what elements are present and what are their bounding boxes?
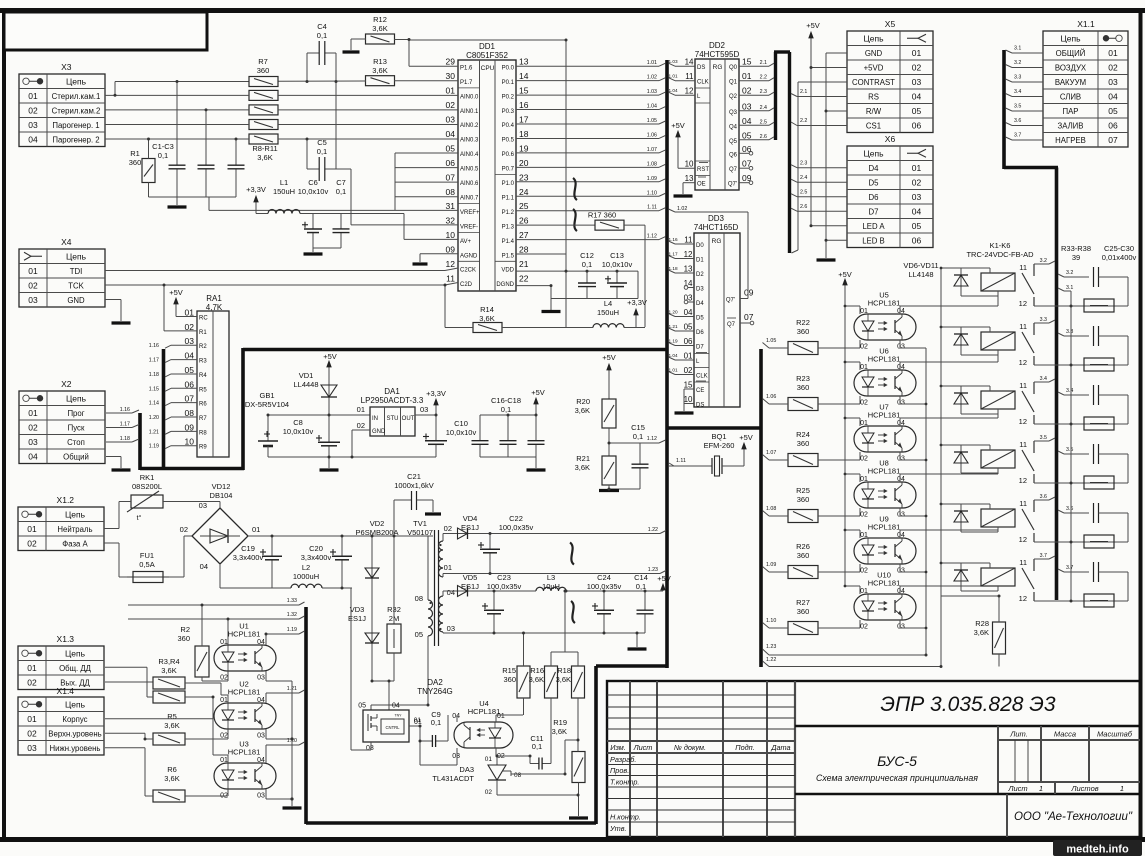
svg-text:R1: R1: [130, 149, 140, 158]
optocoupler U6 HCPL181: [854, 347, 916, 407]
svg-text:15: 15: [519, 86, 529, 96]
wire VDD: [516, 270, 638, 272]
resistor R25 360: [788, 486, 818, 523]
wire contact 11 to bus 3.2: [1034, 263, 1049, 265]
svg-text:0,1: 0,1: [633, 432, 643, 441]
svg-text:14: 14: [684, 279, 693, 288]
svg-text:01: 01: [912, 163, 922, 173]
svg-text:VD2: VD2: [370, 519, 385, 528]
wires X2 to bus: [106, 412, 132, 414]
svg-text:01: 01: [860, 532, 868, 539]
wire row P1.7 input chain: [115, 81, 249, 83]
svg-text:D7: D7: [696, 345, 704, 351]
svg-text:HCPL181: HCPL181: [868, 355, 901, 364]
svg-text:04: 04: [452, 713, 460, 720]
svg-text:LL4448: LL4448: [293, 380, 318, 389]
svg-text:01: 01: [220, 697, 228, 704]
svg-text:3,6K: 3,6K: [257, 153, 272, 162]
svg-text:P0.5: P0.5: [502, 138, 515, 144]
svg-text:3,3x400v: 3,3x400v: [301, 553, 332, 562]
svg-text:L4: L4: [604, 299, 612, 308]
optocoupler U3 HCPL181: [214, 740, 276, 800]
inductor L4 150uH: [566, 299, 645, 328]
flyback diode VD9 LL4148: [954, 445, 968, 473]
svg-text:ОБЩИЙ: ОБЩИЙ: [1056, 49, 1086, 58]
svg-text:1.06: 1.06: [647, 132, 657, 138]
svg-text:CE: CE: [696, 388, 704, 394]
svg-text:AIN0.7: AIN0.7: [460, 195, 479, 201]
bus vertical RA1 signals: [162, 349, 166, 468]
wire RK1 to bridge: [163, 501, 220, 503]
capacitor C15 0,1: [609, 423, 649, 489]
svg-text:X4: X4: [61, 237, 72, 247]
wire contact 11 to bus 3.6: [1034, 499, 1049, 501]
svg-text:03: 03: [897, 344, 905, 351]
svg-text:+5V: +5V: [671, 121, 685, 130]
wire RA1 pin 03 from bus: [165, 345, 171, 348]
svg-text:03: 03: [27, 743, 37, 753]
svg-text:1.22: 1.22: [766, 657, 776, 663]
svg-text:03: 03: [897, 512, 905, 519]
svg-text:1.14: 1.14: [149, 401, 159, 407]
wires DD3 inputs from bus: [669, 241, 676, 244]
svg-text:R2: R2: [199, 344, 207, 350]
svg-text:+5V: +5V: [169, 288, 183, 297]
svg-text:06: 06: [912, 120, 922, 130]
svg-text:05: 05: [415, 630, 423, 639]
svg-text:DD1: DD1: [479, 42, 496, 51]
svg-text:03: 03: [447, 624, 455, 633]
wires relay K5 coil: [941, 503, 990, 505]
svg-text:D0: D0: [696, 243, 704, 249]
svg-text:R21: R21: [576, 454, 590, 463]
svg-text:HCPL181: HCPL181: [468, 707, 501, 716]
svg-text:3,6K: 3,6K: [372, 24, 387, 33]
svg-text:GND: GND: [67, 296, 85, 305]
svg-text:DA2: DA2: [427, 678, 443, 687]
wire R3 to U2 anode: [185, 682, 221, 684]
svg-text:01: 01: [220, 757, 228, 764]
svg-text:03: 03: [897, 456, 905, 463]
svg-text:Цепь: Цепь: [863, 148, 884, 158]
svg-text:R28: R28: [975, 619, 989, 628]
svg-text:1.01: 1.01: [647, 60, 657, 66]
svg-text:04: 04: [257, 697, 265, 704]
svg-text:1.09: 1.09: [647, 176, 657, 182]
capacitor group C16-C18 0,1: [472, 396, 545, 457]
svg-text:C8051F352: C8051F352: [466, 51, 508, 60]
svg-text:3,6K: 3,6K: [575, 463, 590, 472]
power +5V C16-C18: [531, 388, 545, 415]
svg-text:1.15: 1.15: [149, 386, 159, 392]
controller DA2 TNY264G: [358, 678, 453, 752]
wire X2 Общий to ground: [106, 456, 121, 458]
svg-text:+5V: +5V: [531, 388, 545, 397]
resistor group R8-R11 3,6K: [249, 90, 278, 162]
svg-text:2.3: 2.3: [800, 161, 807, 167]
relay contact K5: [1019, 499, 1034, 544]
svg-text:11: 11: [446, 273, 455, 283]
wire contact 11 to bus 3.5: [1034, 440, 1049, 442]
wire X3 pin 03 to AIN0.2: [105, 124, 249, 126]
snubber capacitor C25: [1094, 267, 1129, 306]
svg-text:3.7: 3.7: [1066, 565, 1073, 571]
svg-text:3.4: 3.4: [1014, 89, 1021, 95]
power +5V R20: [602, 353, 616, 377]
svg-text:Q7': Q7': [728, 182, 737, 188]
snubber capacitor C27: [1094, 385, 1129, 424]
wire X4 TCK to C2D: [105, 284, 445, 286]
svg-text:02: 02: [860, 344, 868, 351]
svg-text:Нижн.уровень: Нижн.уровень: [50, 744, 101, 753]
svg-text:360: 360: [797, 607, 810, 616]
svg-text:X1.1: X1.1: [1077, 19, 1095, 29]
svg-text:Изм.: Изм.: [610, 743, 626, 752]
wire DGND: [516, 285, 551, 287]
wires U10 pins: [845, 585, 860, 587]
snubber resistor R38: [1084, 594, 1114, 607]
svg-text:R7: R7: [199, 416, 207, 422]
svg-text:1.12: 1.12: [647, 234, 657, 240]
svg-text:0,1: 0,1: [158, 151, 168, 160]
relay coil K4: [981, 450, 1015, 468]
resistor R18 3,6K: [556, 652, 585, 740]
svg-text:12: 12: [1019, 594, 1027, 603]
svg-text:02: 02: [357, 421, 365, 430]
svg-text:3.4: 3.4: [1066, 388, 1073, 394]
svg-text:P0.3: P0.3: [502, 109, 515, 115]
svg-text:01: 01: [446, 86, 456, 96]
svg-text:02: 02: [860, 400, 868, 407]
svg-text:01: 01: [912, 48, 922, 58]
svg-text:AIN0.4: AIN0.4: [460, 152, 479, 158]
svg-text:DX-5R5V104: DX-5R5V104: [245, 400, 289, 409]
svg-text:04: 04: [897, 420, 905, 427]
svg-text:R6: R6: [199, 402, 207, 408]
wire bus to R27: [763, 623, 770, 629]
svg-text:2.4: 2.4: [800, 175, 807, 181]
svg-text:1.04: 1.04: [669, 353, 679, 358]
capacitor C14 0,1: [634, 573, 653, 633]
rail battery return: [268, 456, 436, 458]
svg-text:R/W: R/W: [866, 107, 882, 116]
svg-text:1.21: 1.21: [149, 429, 159, 435]
wire contact 12 common: [1034, 423, 1128, 425]
resistor R28 3,6K: [941, 596, 1006, 667]
svg-text:3.7: 3.7: [1014, 133, 1021, 139]
relay coil K2: [981, 332, 1015, 350]
svg-text:25: 25: [519, 201, 529, 211]
relay coil K3: [981, 391, 1015, 409]
svg-text:3.5: 3.5: [1066, 447, 1073, 453]
svg-text:HCPL181: HCPL181: [868, 299, 901, 308]
svg-text:TDI: TDI: [70, 267, 83, 276]
svg-text:1.12: 1.12: [647, 436, 657, 442]
wire R6 to U3 cathode: [185, 795, 228, 797]
optocoupler U7 HCPL181: [854, 403, 916, 463]
svg-text:+5V: +5V: [657, 574, 671, 583]
wires relay K3 coil: [941, 385, 990, 387]
svg-text:2.2: 2.2: [800, 118, 807, 124]
svg-text:03: 03: [28, 437, 38, 447]
svg-text:03: 03: [912, 192, 922, 202]
title block right part: [795, 726, 1140, 837]
svg-text:Q7': Q7': [726, 298, 735, 304]
svg-text:23: 23: [519, 172, 529, 182]
svg-text:27: 27: [519, 230, 529, 240]
svg-text:0,1: 0,1: [317, 31, 327, 40]
svg-text:VD5: VD5: [463, 573, 478, 582]
svg-text:ВАКУУМ: ВАКУУМ: [1055, 78, 1086, 87]
wire DD1 P0.1 to bus net 1.02: [516, 80, 659, 82]
wire X1.1 net 3.6: [1006, 123, 1013, 126]
wire R5 to U2 cathode: [185, 738, 228, 740]
svg-text:CNTRL: CNTRL: [386, 725, 401, 730]
svg-text:02: 02: [912, 177, 922, 187]
svg-text:02: 02: [860, 456, 868, 463]
svg-text:0,1: 0,1: [582, 260, 592, 269]
svg-text:02: 02: [220, 733, 228, 740]
svg-text:БУС-5: БУС-5: [877, 753, 917, 769]
wires U1: [227, 619, 229, 645]
svg-text:14: 14: [685, 58, 694, 67]
svg-text:3,6K: 3,6K: [164, 774, 179, 783]
svg-text:ПАР: ПАР: [1062, 107, 1078, 116]
wire R16 R18 tops: [551, 651, 578, 653]
resistor R4 3,6K: [153, 691, 185, 703]
svg-text:K1-K6: K1-K6: [990, 241, 1011, 250]
wire X1.1 net 3.7: [1006, 137, 1013, 140]
svg-text:08S200L: 08S200L: [132, 482, 162, 491]
svg-text:1.33: 1.33: [287, 598, 297, 604]
svg-text:04: 04: [28, 134, 38, 144]
wire bus to R25: [763, 511, 770, 517]
svg-text:ЭПР 3.035.828 Э3: ЭПР 3.035.828 Э3: [880, 693, 1055, 716]
optocoupler U10 HCPL181: [854, 571, 916, 631]
wire TCK junction to RA1 R1: [163, 285, 165, 331]
connector X1.2: [18, 495, 104, 551]
svg-text:02: 02: [446, 100, 456, 110]
svg-text:3.6: 3.6: [1066, 506, 1073, 512]
svg-text:3.2: 3.2: [1066, 270, 1073, 276]
connector X6: [847, 134, 933, 248]
svg-text:R27: R27: [796, 598, 810, 607]
svg-text:01: 01: [1108, 48, 1118, 58]
svg-text:0,5A: 0,5A: [139, 560, 154, 569]
wire X4 GND: [105, 299, 121, 301]
resistor R22 360: [788, 318, 818, 355]
svg-text:10: 10: [685, 160, 694, 169]
svg-text:01: 01: [27, 524, 37, 534]
svg-text:RS: RS: [868, 92, 879, 101]
flyback diode VD11 LL4148: [954, 563, 968, 591]
svg-text:FU1: FU1: [140, 551, 154, 560]
ground X5 X6: [817, 258, 836, 261]
svg-text:06: 06: [912, 235, 922, 245]
wire R4 junction: [185, 696, 213, 698]
svg-text:R19: R19: [553, 718, 567, 727]
svg-text:X6: X6: [885, 134, 896, 144]
wire X1.2 Нейтраль to RK1: [104, 528, 119, 530]
wire DD1 P0.7 to bus net 1.08: [516, 166, 659, 168]
svg-text:11: 11: [685, 72, 694, 81]
svg-text:+3,3V: +3,3V: [426, 389, 446, 398]
wire top loop P1.6 P1.5: [409, 39, 566, 41]
svg-text:05: 05: [446, 143, 456, 153]
svg-text:P1.0: P1.0: [502, 181, 515, 187]
svg-text:D3: D3: [696, 287, 704, 293]
svg-text:02: 02: [180, 525, 188, 534]
svg-text:22: 22: [519, 273, 529, 283]
shift register DD3 74HCT165D: [684, 214, 754, 409]
wire DC positive rail: [248, 535, 433, 537]
svg-text:Цепь: Цепь: [66, 76, 87, 86]
svg-text:02: 02: [28, 422, 38, 432]
svg-text:R17 360: R17 360: [588, 211, 616, 220]
svg-text:04: 04: [912, 206, 922, 216]
svg-text:+5V: +5V: [323, 352, 337, 361]
svg-text:C14: C14: [634, 573, 648, 582]
svg-text:HCPL181: HCPL181: [868, 579, 901, 588]
resonator BQ1 EFM-260: [669, 432, 744, 476]
drawing frame bottom border: [0, 837, 1145, 842]
ground R19: [569, 816, 588, 819]
svg-text:1000uH: 1000uH: [293, 572, 319, 581]
battery GB1 DX-5R5V104: [245, 391, 289, 457]
svg-text:GND: GND: [865, 49, 883, 58]
svg-text:0,01x400v: 0,01x400v: [1102, 253, 1137, 262]
ground R12: [343, 50, 360, 53]
svg-text:R33-R38: R33-R38: [1061, 244, 1091, 253]
svg-text:10,0x10v: 10,0x10v: [298, 187, 329, 196]
wire RA1 pin 08 from bus: [165, 417, 171, 420]
wire DD1 P1.4 to bus net 1.12: [516, 239, 659, 241]
svg-text:P1.7: P1.7: [460, 80, 473, 86]
svg-text:01: 01: [860, 588, 868, 595]
svg-text:11: 11: [1019, 381, 1027, 390]
inductor L1 150uH: [256, 178, 355, 214]
wire X1.1 net 3.5: [1006, 108, 1013, 111]
svg-text:03: 03: [257, 733, 265, 740]
svg-text:1.05: 1.05: [766, 338, 776, 344]
svg-text:04: 04: [28, 451, 38, 461]
svg-text:R2: R2: [180, 625, 190, 634]
svg-text:1.02: 1.02: [647, 75, 657, 81]
svg-text:1.21: 1.21: [669, 324, 679, 329]
svg-text:C2D: C2D: [460, 282, 473, 288]
svg-text:01: 01: [27, 663, 37, 673]
flyback diode VD6 LL4148: [954, 268, 968, 296]
svg-text:3,6K: 3,6K: [575, 406, 590, 415]
svg-text:EFM-260: EFM-260: [704, 441, 735, 450]
svg-text:03: 03: [199, 501, 207, 510]
wire X1.4 Верхн.уровень to R5: [105, 732, 145, 734]
svg-text:R18: R18: [557, 666, 571, 675]
wire contact 11 to bus 3.7: [1034, 558, 1049, 560]
ground rail C1-C3: [149, 196, 237, 198]
svg-text:1.06: 1.06: [766, 394, 776, 400]
svg-text:AGND: AGND: [460, 253, 478, 259]
snubber wire 3.4: [1058, 392, 1064, 395]
relay coil K5: [981, 509, 1015, 527]
capacitor C10 10,0x10v: [423, 415, 476, 457]
svg-text:DA3: DA3: [459, 765, 474, 774]
svg-text:P6SMB200A: P6SMB200A: [356, 528, 399, 537]
svg-text:01: 01: [485, 756, 493, 763]
svg-text:15: 15: [742, 57, 752, 67]
svg-text:1.05: 1.05: [647, 118, 657, 124]
capacitor C6 10,0x10v: [298, 178, 329, 248]
svg-text:D7: D7: [869, 207, 879, 216]
wire net 1.23 to emitter rail: [763, 649, 770, 655]
stub DD3 D3 D4 nc: [684, 286, 688, 290]
svg-text:DD3: DD3: [708, 214, 725, 223]
svg-text:360: 360: [503, 675, 516, 684]
resistor R6 3,6K: [153, 765, 185, 802]
svg-text:R22: R22: [796, 318, 810, 327]
svg-text:3,6K: 3,6K: [164, 721, 179, 730]
ground C16-C18: [535, 457, 537, 468]
svg-text:1.19: 1.19: [287, 627, 297, 633]
svg-text:2.5: 2.5: [760, 119, 767, 125]
svg-text:V50107: V50107: [407, 528, 433, 537]
svg-text:P0.2: P0.2: [502, 94, 515, 100]
svg-text:1: 1: [1039, 784, 1043, 793]
resistor R32 2M: [387, 536, 401, 681]
svg-text:28: 28: [519, 245, 529, 255]
svg-text:100,0x35v: 100,0x35v: [499, 523, 534, 532]
svg-text:Лист: Лист: [1007, 784, 1027, 793]
svg-text:СЛИВ: СЛИВ: [1060, 92, 1081, 101]
svg-text:06: 06: [742, 144, 752, 154]
svg-text:C24: C24: [597, 573, 611, 582]
svg-text:10,0x10v: 10,0x10v: [283, 427, 314, 436]
svg-text:1.08: 1.08: [647, 161, 657, 167]
optocoupler U4 HCPL181: [452, 699, 513, 760]
wire DA3 ref node: [496, 755, 530, 757]
svg-text:Стерил.кам.1: Стерил.кам.1: [52, 92, 101, 101]
squiggle break marks P1.0-P1.1: [573, 178, 577, 200]
svg-text:04: 04: [392, 703, 400, 710]
svg-text:P1.3: P1.3: [502, 224, 515, 230]
svg-text:P1.5: P1.5: [502, 253, 515, 259]
shunt regulator DA3 TL431ACDT: [432, 756, 521, 796]
svg-text:№ докум.: № докум.: [674, 743, 706, 752]
power +5V RA1: [169, 288, 197, 317]
svg-text:+3,3V: +3,3V: [246, 185, 266, 194]
svg-text:3,6K: 3,6K: [529, 675, 544, 684]
svg-text:1.03: 1.03: [647, 89, 657, 95]
wire X1.1 net 3.2: [1006, 65, 1013, 68]
svg-text:04: 04: [257, 639, 265, 646]
svg-text:Лит.: Лит.: [1009, 730, 1028, 739]
svg-text:1.01: 1.01: [669, 368, 679, 373]
svg-text:1.16: 1.16: [120, 407, 130, 413]
svg-text:0,1: 0,1: [532, 742, 542, 751]
power +5V X5: [806, 21, 820, 226]
wire DD3 Q7 output to bus net 1.02: [740, 298, 748, 300]
stub DD2 Q6 Q7 Q7 nc: [739, 152, 749, 154]
wires DD2 outputs to bus 2.x: [739, 65, 769, 67]
svg-text:03: 03: [257, 675, 265, 682]
svg-text:IN: IN: [372, 416, 378, 422]
relay coil K6: [981, 568, 1015, 586]
svg-text:Масса: Масса: [1054, 730, 1076, 739]
shift register DD2 74HCT595D: [685, 41, 752, 190]
wire VREF+: [208, 197, 210, 210]
svg-text:01: 01: [27, 714, 37, 724]
svg-text:1000x1,6kV: 1000x1,6kV: [394, 481, 434, 490]
